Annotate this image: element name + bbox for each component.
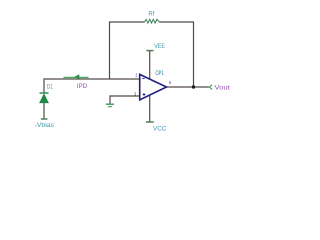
wire feedback left vertical [109,21,111,79]
op-amp OP1 [140,74,167,100]
svg-text:OP1: OP1 [155,70,164,77]
svg-text:D1: D1 [47,85,54,91]
power VCC bar [146,121,154,123]
port Vout [209,85,212,90]
current arrow IPD [64,74,89,79]
wire inverting input net horizontal [44,78,140,80]
ground [106,104,114,107]
svg-text:VCC: VCC [153,125,167,132]
svg-text:VEE: VEE [154,43,165,50]
wire VCC pin 4 stub [149,95,151,121]
power -Vbias bar [41,118,48,120]
svg-text:Vout: Vout [214,85,230,92]
svg-text:-Vbias: -Vbias [35,123,54,129]
wire feedback top left segment [110,21,145,23]
wire feedback top right segment [159,21,193,23]
svg-text:IPD: IPD [77,83,88,90]
wire diode bottom stub [43,103,45,119]
wire feedback right vertical [193,21,195,87]
wire output [167,86,209,88]
svg-text:Rf: Rf [148,11,154,18]
wire diode top stub [43,78,45,93]
wire VEE pin 7 stub [149,51,151,79]
wire ground stub [109,95,111,103]
wire non-inverting input horizontal [110,95,140,97]
power VEE bar [146,50,153,52]
junction output node [192,85,195,88]
resistor Rf [145,19,160,23]
diode D1 [40,93,49,103]
